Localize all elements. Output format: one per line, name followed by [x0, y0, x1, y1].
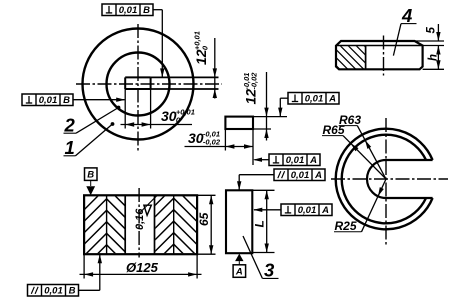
svg-text:0,01: 0,01 [44, 285, 63, 296]
svg-text:0,01: 0,01 [305, 93, 324, 104]
svg-text:0,01: 0,01 [39, 95, 58, 106]
svg-text:A: A [309, 155, 317, 166]
svg-text:-0,02: -0,02 [203, 137, 221, 146]
svg-text:R25: R25 [335, 219, 357, 233]
svg-text:0,01: 0,01 [291, 170, 310, 181]
svg-text:65: 65 [197, 212, 211, 226]
svg-text:0,01: 0,01 [286, 155, 305, 166]
svg-text:B: B [63, 95, 70, 106]
svg-text:B: B [69, 285, 76, 296]
svg-text:3: 3 [264, 260, 275, 281]
svg-text:0,16: 0,16 [134, 208, 146, 230]
svg-text:12: 12 [193, 49, 209, 65]
svg-text:A: A [328, 93, 336, 104]
svg-text:-0,02: -0,02 [250, 72, 259, 90]
svg-text:5: 5 [426, 27, 438, 34]
svg-text:B: B [87, 170, 94, 181]
svg-text:A: A [314, 170, 322, 181]
svg-text:A: A [321, 205, 329, 216]
svg-text:12: 12 [242, 89, 258, 105]
svg-text:30: 30 [188, 130, 204, 146]
svg-text:2: 2 [64, 115, 76, 136]
svg-text:L: L [253, 220, 267, 227]
svg-text:1: 1 [65, 137, 75, 158]
svg-text:0,01: 0,01 [119, 5, 138, 16]
svg-text:h: h [428, 54, 440, 61]
svg-text:30: 30 [161, 108, 177, 124]
svg-text:Ø125: Ø125 [126, 260, 159, 275]
svg-text:R65: R65 [323, 123, 345, 137]
svg-text:0,01: 0,01 [298, 205, 317, 216]
svg-text:B: B [143, 5, 150, 16]
svg-text:4: 4 [401, 5, 412, 26]
svg-text:A: A [235, 266, 243, 277]
